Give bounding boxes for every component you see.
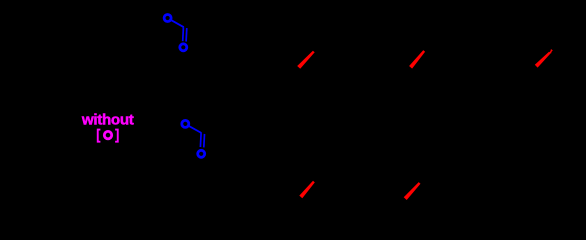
svg-text:without: without [81,111,134,128]
